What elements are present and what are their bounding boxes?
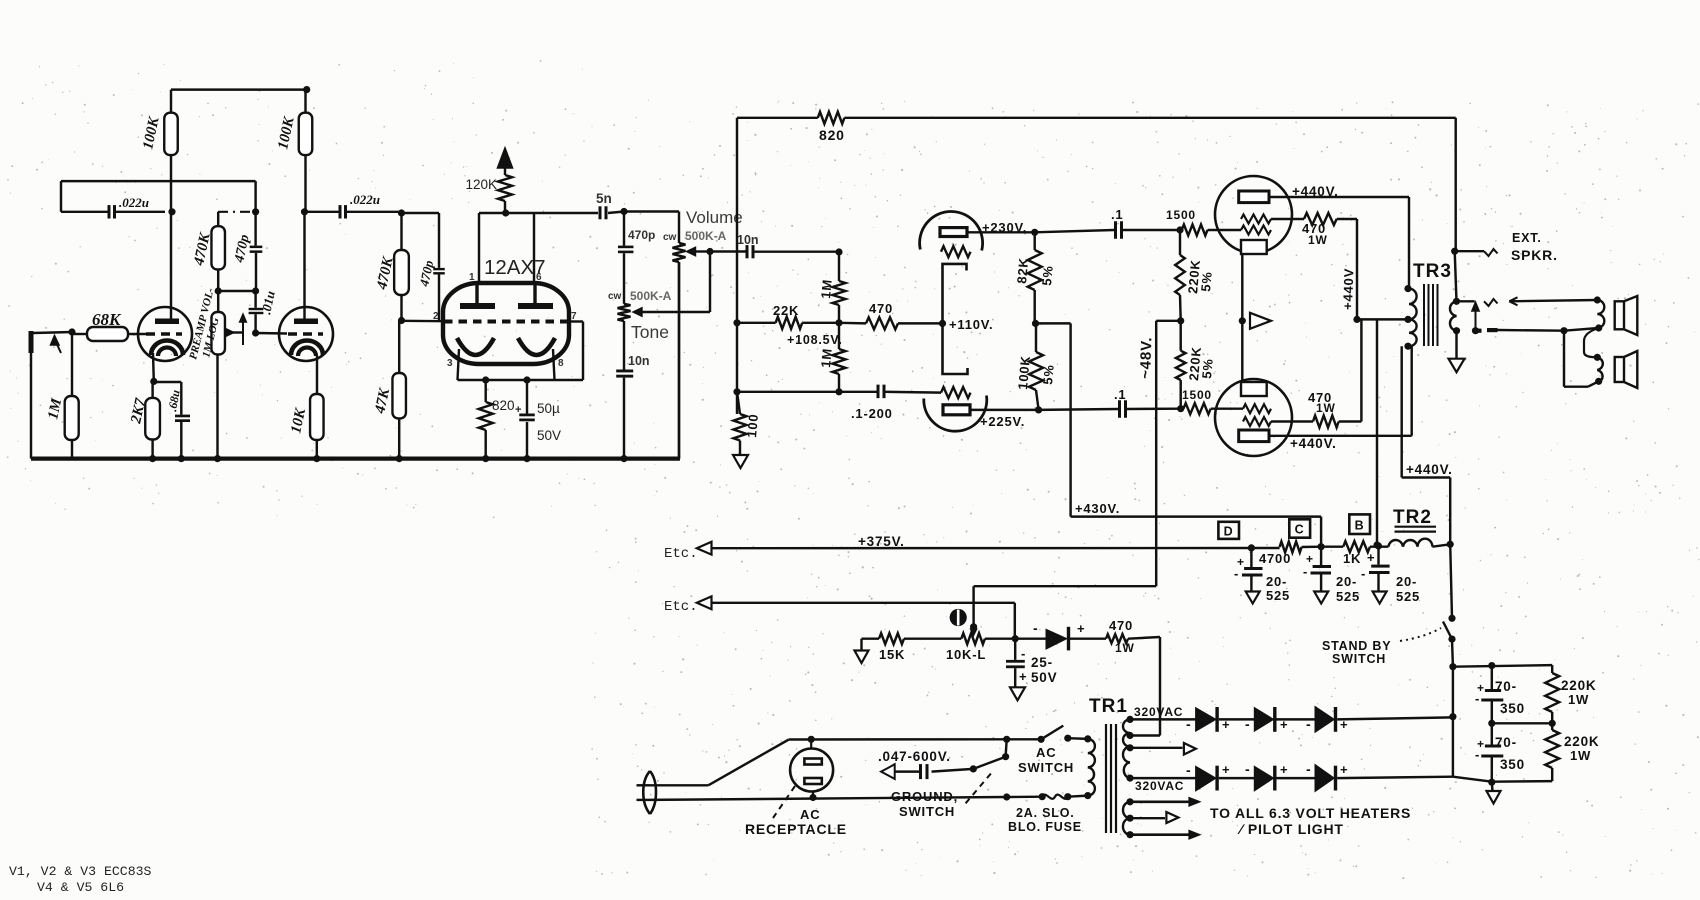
transformer TR1 primary (1084, 735, 1095, 799)
svg-text:C: C (1295, 523, 1305, 537)
svg-text:Volume: Volume (686, 208, 743, 227)
wire cathode join (1241, 254, 1243, 382)
svg-text:820: 820 (492, 398, 515, 413)
svg-text:Etc.: Etc. (664, 599, 698, 615)
rail +375V (712, 534, 1280, 549)
node fuse left (1003, 793, 1046, 801)
wire bias takeoff (1036, 322, 1071, 324)
svg-text:.047-600V.: .047-600V. (878, 749, 951, 764)
svg-text:470p: 470p (628, 228, 655, 242)
node 820 top (482, 376, 489, 383)
node TR2 right (1447, 541, 1454, 548)
wire 4700 to C (1302, 545, 1322, 548)
AC switch (1007, 726, 1088, 743)
resistor 220K 5% (lower) (1176, 321, 1216, 409)
svg-text:SWITCH: SWITCH (899, 804, 955, 819)
speaker 2 coil (1594, 354, 1603, 385)
svg-text:10K-L: 10K-L (946, 647, 986, 662)
svg-text:-: - (1361, 566, 1366, 581)
pot wiper arrow (226, 314, 246, 345)
svg-text:TR2: TR2 (1393, 507, 1432, 528)
svg-text:5%: 5% (1040, 364, 1057, 386)
label Etc. 2 (664, 599, 698, 615)
node standby out (1449, 663, 1456, 670)
capacitor .68u (V1 cathode bypass) (165, 388, 190, 422)
svg-text:EXT.: EXT. (1512, 231, 1542, 245)
screwdriver adjust symbol (950, 609, 967, 626)
transformer TR1 HV secondary (1123, 716, 1134, 782)
node V1 cathode (150, 378, 157, 385)
wire to speakers arrow (1509, 297, 1597, 305)
wire tone branch (623, 212, 625, 246)
resistor 82K 5% (1014, 232, 1056, 323)
capacitor 470p (across V3 470K) (402, 213, 445, 321)
diode bias (1015, 620, 1106, 650)
wire sleeve to ground (1455, 331, 1457, 359)
node V2 plate junction (301, 208, 308, 215)
wire coupling cap left (61, 211, 165, 213)
wire V1 plate lead (170, 212, 172, 319)
resistor 100 (NFB shunt) (734, 392, 762, 455)
tube V3a arc (PI top) (920, 211, 983, 250)
label +230V (982, 220, 1027, 235)
cathode arrow (1250, 313, 1271, 329)
wire bypass cap to ground (180, 422, 182, 459)
label SWITCH gnd (899, 804, 955, 819)
pin 1 label (469, 272, 475, 283)
dashed leader ground switch (966, 773, 992, 803)
label 320VAC bottom (1135, 779, 1184, 793)
resistor 470 1W (V4 screen) (1271, 213, 1357, 247)
speaker 2 horn (1615, 351, 1638, 388)
svg-text:+: + (1077, 621, 1085, 636)
capacitor .1 (lower coupling) (1039, 387, 1181, 418)
svg-text:20-: 20- (1266, 574, 1287, 589)
svg-text:SPKR.: SPKR. (1511, 247, 1558, 263)
wire rectifier join (1452, 667, 1454, 777)
diode D6 (1306, 761, 1453, 791)
arrow Etc 375 (697, 542, 712, 555)
ground NFB (733, 455, 748, 468)
svg-text:5%: 5% (1198, 271, 1215, 293)
node V2 grid junction (252, 329, 259, 336)
B+ arrow above 120K (498, 148, 513, 175)
pin 7 label (571, 311, 577, 322)
arrow Etc 2 (697, 596, 712, 609)
resistor 1M (PI lower) (818, 323, 845, 392)
svg-text:-: - (1475, 747, 1480, 762)
label +440V bottom (1290, 436, 1337, 451)
wire standby upper (1450, 544, 1452, 618)
label 2A SLO (1016, 806, 1075, 820)
label 500K-A volume (685, 229, 727, 243)
node 82K top (1031, 229, 1038, 236)
label STAND BY (1322, 639, 1391, 653)
svg-text:500K-A: 500K-A (685, 229, 727, 243)
wire V2 cathode lead (316, 356, 318, 394)
wire pin1 lead (478, 213, 480, 283)
label cw tone (608, 291, 622, 302)
resistor 820 (cathode) (479, 380, 515, 462)
label cw volume (663, 232, 677, 243)
capacitor 70-350 (2) (1475, 723, 1525, 782)
wire dash-dot link to 470K (218, 211, 252, 213)
label +108.5V (787, 333, 843, 347)
svg-text:SWITCH: SWITCH (1018, 760, 1074, 775)
node PI grid top (835, 248, 842, 255)
capacitor 10n (to PI) (710, 233, 840, 258)
node 470K bottom (215, 287, 260, 294)
svg-text:5n: 5n (596, 191, 612, 206)
svg-text:1500: 1500 (1182, 388, 1212, 402)
svg-text:-: - (1245, 761, 1251, 777)
svg-text:-: - (1234, 566, 1239, 581)
capacitor .1 (upper coupling) (1035, 207, 1180, 239)
capacitor 25-50V (1006, 639, 1057, 688)
svg-text:-: - (1303, 564, 1308, 579)
tube V5 cathode box (1241, 382, 1267, 396)
node NFB tail (733, 319, 740, 326)
svg-text:3: 3 (447, 358, 453, 369)
resistor 220K 1W (2) (1545, 723, 1599, 781)
svg-text:.1: .1 (1114, 387, 1126, 402)
node 1500 bottom (1177, 405, 1184, 412)
resistor 220K 1W (1) (1545, 665, 1596, 723)
main jack tip (1457, 299, 1498, 331)
resistor 470K (V2 grid) (191, 212, 225, 291)
wire input sleeve to ground (30, 353, 32, 459)
node 1500 top (1176, 226, 1183, 233)
pin 8 label (558, 358, 564, 369)
diode D2 (1245, 707, 1315, 732)
label +440V mid (1406, 462, 1453, 477)
svg-text:+440V.: +440V. (1290, 436, 1337, 451)
wire standby lower (1451, 639, 1454, 667)
resistor 100K 5% (1015, 323, 1057, 410)
svg-text:+440V.: +440V. (1406, 462, 1453, 477)
resistor 47K (V3 lower) (372, 321, 406, 463)
svg-text:25-: 25- (1031, 655, 1053, 670)
svg-text:320VAC: 320VAC (1135, 779, 1184, 793)
svg-text:.1-200: .1-200 (851, 406, 893, 421)
node rectifier out (1449, 713, 1456, 720)
resistor 470K (V3 grid) (374, 213, 409, 321)
note tube types line 1 (9, 864, 152, 879)
svg-text:GROUND,: GROUND, (891, 789, 958, 804)
svg-text:SWITCH: SWITCH (1332, 652, 1386, 666)
label PILOT LIGHT (1237, 821, 1344, 837)
box D (1218, 522, 1239, 539)
label 120K value (0, 0, 1, 1)
svg-text:320VAC: 320VAC (1134, 705, 1183, 719)
svg-text:20-: 20- (1336, 574, 1357, 589)
svg-text:+440V.: +440V. (1292, 184, 1339, 199)
dotted leader standby (1400, 628, 1441, 641)
wire V1 cathode lead (152, 353, 155, 381)
tube V3a plate (940, 228, 967, 237)
tube V3b plate (943, 405, 970, 415)
wire +440 L (1402, 346, 1451, 544)
ground cap C (1314, 592, 1328, 604)
node V1 plate junction (168, 208, 175, 215)
svg-text:1M: 1M (818, 347, 835, 368)
svg-text:+440V: +440V (1340, 268, 1356, 310)
node B screen feed (1373, 541, 1380, 548)
tube V3b arc (PI bottom) (924, 396, 987, 432)
label TO ALL HEATERS (1210, 805, 1411, 821)
wire cathode bypass branch (154, 382, 182, 415)
node receptacle bottom (809, 794, 816, 801)
diode D4 (1186, 762, 1255, 791)
svg-text:+: + (1367, 550, 1375, 565)
ground speaker jack (1449, 359, 1465, 373)
node sleeve wire (1560, 327, 1567, 334)
resistor 15K (862, 633, 962, 662)
svg-text:-: - (1186, 716, 1192, 732)
svg-text:V1, V2 & V3 ECC83S: V1, V2 & V3 ECC83S (9, 864, 152, 879)
svg-text:10n: 10n (628, 354, 650, 368)
node secondary top (1453, 298, 1460, 305)
svg-text:B: B (1355, 519, 1365, 533)
transformer TR1 core (1106, 724, 1116, 833)
tube 12AX7 plates (460, 283, 553, 309)
wire heater CT arrow (1130, 743, 1196, 755)
wire feedback loop top (61, 181, 256, 212)
tone wiper arrow (633, 252, 710, 317)
wire bias to winding (1128, 637, 1160, 736)
node AC switch in (1003, 736, 1010, 743)
svg-text:∕ PILOT LIGHT: ∕ PILOT LIGHT (1237, 821, 1344, 837)
svg-text:100K: 100K (1015, 355, 1033, 390)
label TR3 (1413, 261, 1452, 282)
svg-text:Etc.: Etc. (664, 546, 698, 562)
node bias junction (1012, 635, 1019, 642)
tube V4 control grid (1241, 226, 1271, 235)
transformer TR3 core (1424, 284, 1438, 346)
wire heater 2 (1130, 812, 1178, 823)
wire sleeve to spk2 (1564, 328, 1599, 331)
ground bleeder (1487, 782, 1501, 803)
resistor 2K7 (V1 cathode) (128, 397, 160, 440)
label .047-600V (878, 749, 951, 764)
svg-text:70-: 70- (1495, 735, 1517, 750)
resistor 1M (PI upper) (818, 252, 845, 323)
label +225V (980, 414, 1025, 429)
svg-text:1K: 1K (1343, 551, 1361, 566)
wire V2 plate lead (303, 212, 305, 319)
transformer TR3 primary (1404, 285, 1416, 350)
wire pot bottom to ground (214, 355, 221, 463)
resistor 1500 (V4 grid) (1166, 208, 1241, 236)
capacitor .022u (V1-V2 coupling) (108, 195, 149, 219)
svg-text:820: 820 (819, 127, 845, 143)
label Volume (686, 208, 743, 227)
node V3 grid top junction (398, 209, 405, 216)
node B (1375, 542, 1382, 549)
svg-text:cw: cw (608, 291, 622, 302)
wire V5 screen drop (1360, 319, 1362, 421)
tube V3b grid zigzag (941, 387, 971, 398)
node bottom rail (1488, 779, 1495, 786)
wire heater 1 (1130, 798, 1200, 807)
label +375V (0, 0, 1, 1)
svg-text:+225V.: +225V. (980, 414, 1025, 429)
svg-text:50V: 50V (537, 428, 561, 443)
wire 68K to V1 grid (128, 333, 146, 335)
label GROUND, (891, 789, 958, 804)
tube V5 screen grid (1243, 404, 1271, 413)
svg-text:-: - (1306, 716, 1312, 732)
svg-text:cw: cw (663, 232, 677, 243)
resistor 10K (V2 cathode) (288, 394, 323, 462)
tube V5 (6L6 lower) (1215, 379, 1292, 456)
wire to volume pot (624, 212, 679, 244)
svg-text:+375V.: +375V. (858, 534, 905, 549)
tube V4 cathode box (1241, 240, 1267, 254)
resistor 120K (465, 175, 512, 213)
svg-text:100: 100 (744, 413, 761, 438)
node PI divider mid (1032, 320, 1039, 327)
node ext spkr tap (1451, 248, 1458, 255)
node input/1M (68, 328, 75, 335)
cathode bracket PI (943, 264, 968, 374)
ground cap D (1246, 592, 1260, 604)
tube V4 screen grid (1241, 215, 1271, 224)
svg-text:1W: 1W (1570, 748, 1591, 763)
node 2K7 ground (149, 455, 156, 462)
node volume wiper (706, 248, 713, 255)
ground switch (970, 739, 1010, 772)
label AC SWITCH (1018, 745, 1074, 775)
svg-text:350: 350 (1500, 701, 1525, 716)
svg-text:1W: 1W (1308, 233, 1328, 247)
svg-text:2: 2 (433, 311, 439, 322)
svg-text:1500: 1500 (1166, 208, 1196, 222)
wire HV top (1130, 718, 1196, 720)
tube 12AX7 grid (444, 320, 568, 324)
node secondary bottom (1453, 327, 1460, 334)
capacitor 70-350 (1) (1475, 666, 1525, 724)
diode D1 (1186, 707, 1255, 732)
triode V1 (138, 307, 192, 361)
tube V4 (6L6 upper) (1215, 176, 1292, 253)
node NFB lower (733, 388, 740, 395)
node 50u top (523, 376, 530, 383)
tube 12AX7 envelope (443, 283, 569, 364)
AC receptacle (790, 739, 833, 798)
svg-text:TR3: TR3 (1413, 261, 1452, 282)
node mid rail (1488, 720, 1556, 727)
wire grid junction to V2 (256, 332, 287, 335)
svg-text:12AX7: 12AX7 (484, 256, 546, 279)
potentiometer PREAMP VOL 1M LOG (187, 286, 225, 360)
resistor 100K (V2 plate) (275, 90, 312, 212)
wire pin6 lead (533, 213, 535, 283)
ground 25-50V (1010, 687, 1025, 700)
svg-text:350: 350 (1500, 757, 1525, 772)
wire V3a plate to node (966, 231, 1035, 233)
node receptacle top (808, 736, 815, 743)
standby switch (1443, 615, 1456, 643)
label SPKR. (1511, 247, 1558, 263)
capacitor 20-525 (B) (1361, 546, 1420, 604)
svg-text:+230V.: +230V. (982, 220, 1027, 235)
svg-text:82K: 82K (1014, 257, 1031, 284)
jack sleeve contacts (1472, 327, 1564, 334)
svg-text:1M: 1M (818, 278, 835, 299)
label -48V (1137, 336, 1155, 379)
capacitor .01u (to pot) (249, 290, 278, 333)
resistor 1500 (V5 grid) (1182, 388, 1243, 414)
transformer TR1 heater secondary (1123, 798, 1134, 838)
wire V3b plate to node (969, 409, 1039, 411)
svg-text:5%: 5% (1039, 265, 1056, 287)
resistor 100K (V1 plate) (140, 90, 177, 212)
wire mains lower (650, 797, 1007, 800)
wire spk1 to spk2 (1584, 328, 1599, 357)
svg-text:1W: 1W (1115, 641, 1135, 655)
triode V2 (279, 307, 333, 361)
node C (1318, 543, 1325, 550)
svg-text:.1: .1 (1111, 207, 1123, 222)
svg-text:-: - (1475, 691, 1480, 706)
svg-text:.022u: .022u (119, 195, 149, 210)
resistor 820 (NFB) (737, 112, 1456, 143)
node res cap 1 (1488, 662, 1495, 669)
node screen rail top (1353, 316, 1360, 323)
capacitor .1-200 (737, 385, 941, 421)
svg-text:525: 525 (1336, 589, 1360, 604)
svg-text:5%: 5% (1199, 358, 1216, 380)
svg-text:+: + (1280, 762, 1288, 777)
box C (1289, 519, 1310, 537)
svg-text:20-: 20- (1396, 574, 1417, 589)
svg-text:220K: 220K (1564, 734, 1599, 749)
svg-text:TR1: TR1 (1089, 696, 1128, 717)
tube V3a grid zigzag (941, 246, 971, 257)
wire plate rail (479, 212, 598, 214)
svg-text:V4 & V5 6L6: V4 & V5 6L6 (37, 880, 124, 895)
speaker 1 horn (1615, 296, 1638, 335)
tube V5 control grid 2 (1243, 417, 1271, 426)
label +430V (1075, 501, 1120, 516)
resistor 470 (PI tail) (839, 301, 943, 329)
node 120K plate rail (502, 209, 509, 216)
svg-text:470: 470 (1109, 618, 1133, 633)
fuse 2A (1007, 793, 1088, 800)
svg-text:8: 8 (558, 358, 564, 369)
resistor 1K (1321, 541, 1388, 566)
svg-text:+: + (515, 404, 521, 416)
svg-text:4700: 4700 (1259, 551, 1291, 566)
note tube types line 2 (37, 880, 124, 895)
svg-text:10n: 10n (737, 233, 759, 247)
wire mains upper (650, 739, 1007, 785)
label SWITCH (1332, 652, 1386, 666)
svg-text:1W: 1W (1568, 692, 1589, 707)
node PI cathode (939, 320, 946, 327)
node PI tail (835, 319, 842, 326)
potentiometer Volume 500K-A (673, 243, 686, 459)
svg-text:70-: 70- (1495, 679, 1517, 694)
potentiometer 10K-L (946, 633, 1015, 662)
node V3 grid bottom junction (398, 317, 405, 324)
choke TR2 (1388, 527, 1436, 547)
label 500K-A tone (630, 289, 672, 303)
transformer TR3 secondary (1450, 301, 1457, 330)
capacitor 5n (coupling) (596, 191, 624, 219)
label TR2 (1393, 507, 1432, 528)
